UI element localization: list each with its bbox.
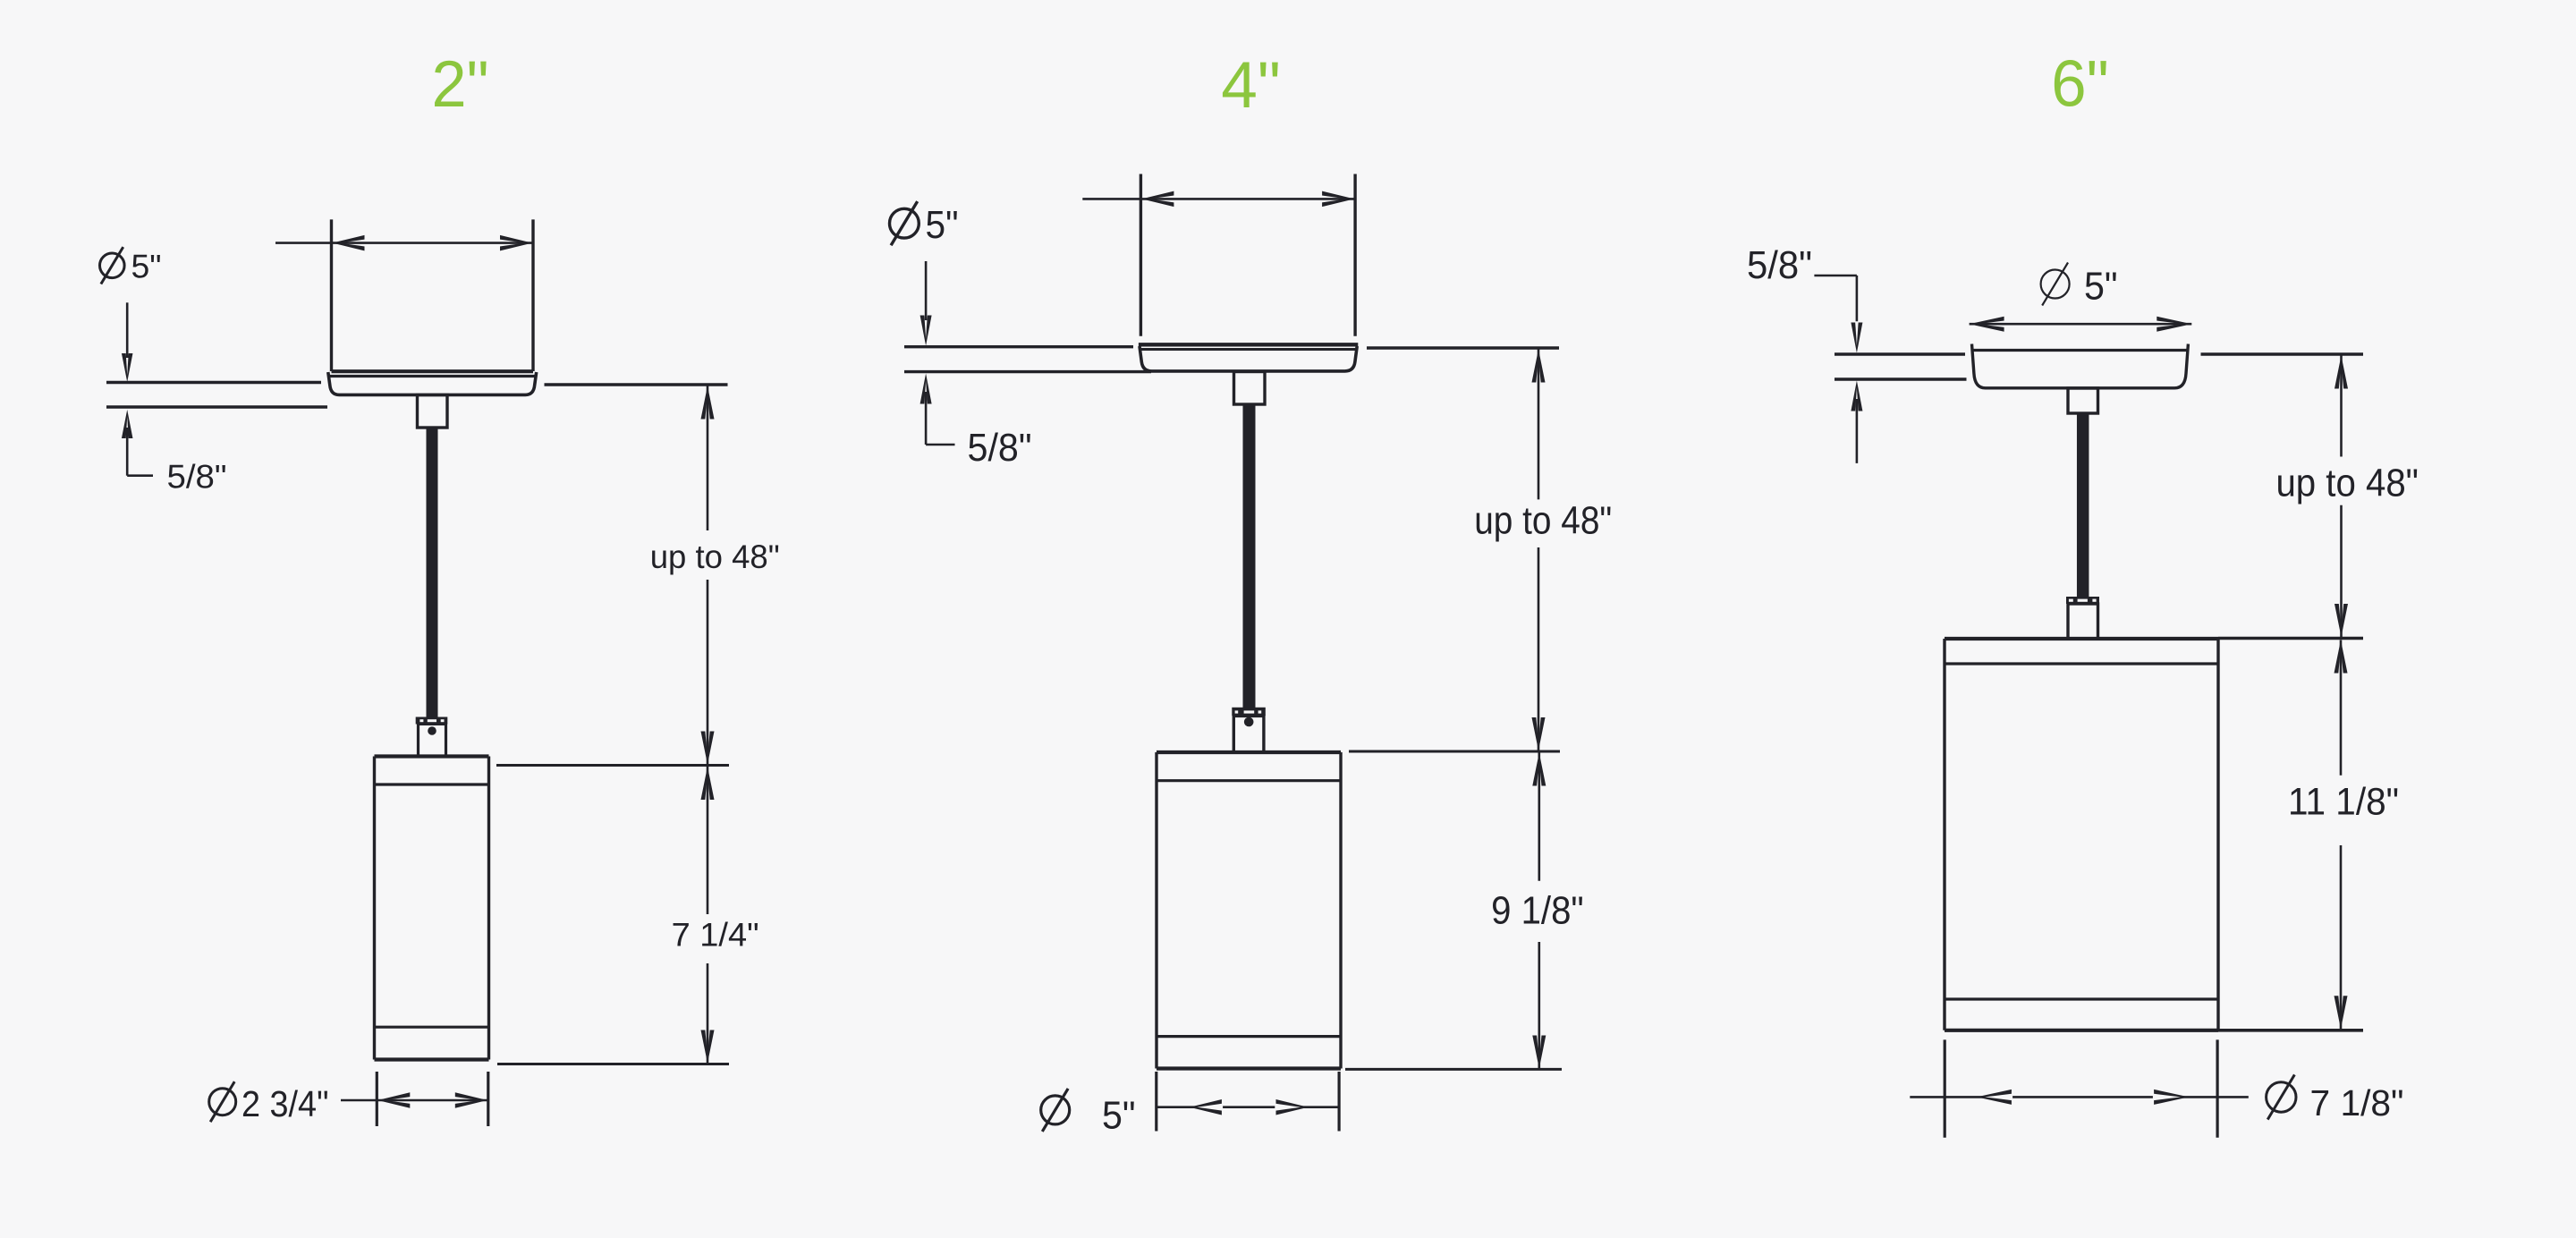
cylinder shade bottom edge (6") [1945,1029,2218,1032]
connector set screw dot (2") [428,726,436,735]
bottom dim arrowheads (6") [1977,1090,2012,1105]
canopy width dim arrowheads (4") [1141,191,1174,208]
svg-text:5": 5" [1102,1093,1136,1137]
label 7 1/8" (6") [2267,1082,2296,1112]
cord collar (2") [416,717,448,725]
svg-text:up to 48": up to 48" [2275,462,2419,505]
cylinder shade top edge (4") [1157,750,1341,754]
bottom dim arrowheads (4") [1190,1099,1222,1115]
connector set screw dot (4") [1244,717,1254,727]
canopy width dim line (4") [1082,198,1355,200]
up-to-48 bottom arrow (4") [1532,717,1546,750]
svg-text:7 1/4": 7 1/4" [672,916,759,953]
5/8 down arrow (2") [122,353,133,382]
svg-text:5": 5" [926,203,959,247]
5/8 leader foot (2") [127,474,153,477]
canopy dish rim line (4") [1140,348,1358,351]
canopy dish top edge (4") [1139,343,1358,346]
bottom dim extension lines (6") [1944,1039,1946,1137]
up-to-48 bottom arrow (2") [701,732,715,765]
cord connector body (2") [419,724,446,756]
suspension cord (4") [1243,404,1256,708]
svg-text:5": 5" [131,249,162,285]
svg-text:4": 4" [1221,49,1281,122]
7-1/4 top arrow (2") [701,767,715,800]
cord grip (2") [418,395,448,428]
ceiling line upper-left (2") [106,381,321,384]
7-1/4 bottom arrow (2") [701,1030,715,1064]
cord collar (6") [2066,597,2099,604]
svg-text:11 1/8": 11 1/8" [2288,781,2399,824]
cylinder top band line (4") [1157,779,1341,782]
5/8 leader foot (4") [926,444,954,446]
ceiling line lower-left (2") [106,405,327,408]
svg-text:2 3/4": 2 3/4" [241,1083,329,1124]
canopy width dim arrowheads (2") [333,235,365,251]
svg-text:6": 6" [2051,48,2109,121]
cylinder shade sides (2") [373,757,376,1060]
5/8 up arrow (2") [122,410,133,438]
svg-text:9 1/8": 9 1/8" [1491,889,1584,933]
cylinder top band line (6") [1945,662,2218,665]
cord grip (6") [2068,388,2098,413]
cylinder top band line (2") [375,783,489,785]
svg-text:7 1/8": 7 1/8" [2310,1082,2404,1124]
up-to-48 bottom arrow (6") [2334,604,2348,637]
bottom dim line (2") [341,1099,488,1102]
11-1/8 top arrow (6") [2334,640,2348,674]
up-to-48 top arrow (4") [1532,350,1546,383]
canopy extension line left (4") [1140,174,1142,336]
bottom dim extension lines (4") [1155,1072,1157,1132]
cylinder shade sides (4") [1155,752,1157,1069]
cylinder bottom band line (6") [1945,997,2218,1000]
tick line at shade top (2") [496,764,729,767]
bottom dim line (4") [1157,1106,1339,1108]
label 5" top (4") [890,208,919,238]
11-1/8 bottom arrow (6") [2334,996,2348,1029]
canopy dish top edge (2") [332,369,534,373]
cylinder shade bottom edge (2") [375,1057,489,1061]
5/8 up arrow (4") [920,374,932,404]
cord grip (4") [1234,372,1266,405]
9-1/8 top arrow (4") [1532,753,1546,786]
canopy dish rim line (2") [328,375,537,377]
tick line at shade top (6") [2218,637,2363,640]
5/8 leader foot (6") [1814,275,1856,277]
ceiling line lower-left (4") [904,370,1151,373]
ceiling line lower-left (6") [1835,377,1967,380]
suspension cord (2") [427,428,438,717]
label 5" (2") [100,253,125,278]
cylinder shade sides (6") [1943,639,1945,1030]
canopy dish profile (6") [1972,344,2189,388]
ceiling line right (6") [2201,352,2364,355]
9-1/8 bottom arrow (4") [1532,1036,1546,1069]
label 5" bottom (4") [1041,1096,1070,1124]
bottom dim arrowheads (2") [377,1092,410,1108]
cylinder shade bottom edge (4") [1157,1066,1341,1070]
cylinder shade top edge (2") [375,754,489,758]
ceiling line right (4") [1367,346,1559,349]
tick line at shade top (4") [1349,750,1560,753]
cord collar (4") [1232,708,1266,716]
tick line at shade bottom (4") [1345,1068,1562,1071]
ceiling line upper-left (4") [904,345,1133,348]
svg-text:5/8": 5/8" [968,426,1032,470]
cylinder bottom band line (2") [375,1026,489,1029]
up-to-48 top arrow (6") [2334,356,2348,389]
canopy extension line right (4") [1353,174,1356,336]
ceiling line upper-left (6") [1835,352,1965,355]
cylinder bottom band line (4") [1157,1035,1341,1038]
canopy dish rim line (6") [1972,349,2189,352]
svg-text:5/8": 5/8" [1747,243,1812,287]
canopy width dim arrows (6") [1970,317,2004,332]
bottom dim extension lines (2") [376,1072,378,1126]
cord connector body (4") [1233,716,1264,752]
5/8 up arrow (6") [1851,381,1862,411]
tick line at shade bottom (2") [497,1063,729,1065]
bottom dim line (6") [1910,1096,2249,1098]
canopy extension line left (2") [330,219,333,371]
label 2 3/4" (2") [209,1089,236,1115]
canopy dish profile (2") [328,372,537,394]
5/8 down arrow (4") [920,316,932,346]
up-to-48 top arrow (2") [701,386,715,420]
svg-text:5/8": 5/8" [167,459,227,496]
5/8 leader vertical + down arrow (6") [1856,276,1859,324]
cord connector body (6") [2068,604,2098,639]
tick line at shade bottom (6") [2218,1029,2363,1032]
canopy width dim line (2") [275,242,533,244]
ceiling line right (2") [545,383,728,386]
svg-text:2": 2" [432,48,489,121]
svg-text:5": 5" [2084,265,2118,309]
canopy extension line right (2") [531,219,534,371]
suspension cord (6") [2077,413,2089,598]
svg-text:up to 48": up to 48" [650,538,780,575]
canopy dish profile (4") [1140,346,1357,371]
label 5" top (6") [2041,270,2070,299]
svg-text:up to 48": up to 48" [1474,498,1612,542]
cylinder shade top edge (6") [1945,637,2218,640]
